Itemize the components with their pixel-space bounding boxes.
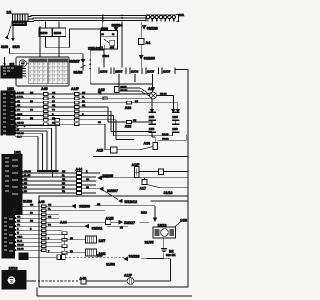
svg-text:SB: SB	[30, 101, 33, 103]
svg-text:11/C7: 11/C7	[163, 70, 171, 74]
svg-text:31/18: 31/18	[164, 191, 173, 195]
svg-text:33/227: 33/227	[69, 59, 80, 63]
heater 16/8	[86, 249, 106, 256]
svg-text:GN: GN	[98, 92, 102, 94]
svg-text:GN: GN	[62, 171, 66, 173]
svg-text:33/227: 33/227	[124, 221, 135, 225]
connector A1/F circle	[124, 274, 171, 285]
svg-text:1/1: 1/1	[7, 11, 12, 15]
svg-text:GN: GN	[30, 204, 34, 206]
wire drop x59 to 11/C8	[58, 22, 60, 58]
svg-text:31/20: 31/20	[23, 200, 32, 204]
wire w2	[15, 98, 152, 112]
lower box border	[39, 196, 188, 287]
svg-text:31/95: 31/95	[145, 240, 154, 244]
wire labels section2	[17, 92, 139, 138]
wire relay left leg	[90, 50, 104, 84]
svg-text:BN-SB: BN-SB	[162, 134, 169, 136]
svg-text:VO: VO	[52, 110, 55, 112]
svg-text:15/18: 15/18	[9, 267, 18, 271]
svg-text:BN: BN	[52, 118, 56, 120]
heater 15/7	[86, 236, 106, 243]
wire w12 down	[15, 134, 43, 171]
svg-text:BN-SB: BN-SB	[160, 94, 167, 96]
svg-text:GR: GR	[52, 105, 56, 107]
wire bulb right	[156, 96, 173, 113]
wire 33/228	[124, 253, 175, 281]
svg-text:328 BK: 328 BK	[166, 253, 175, 257]
svg-text:GN: GN	[133, 120, 137, 122]
svg-text:GN: GN	[82, 92, 86, 94]
wire labels section3	[24, 171, 90, 193]
svg-text:11/C6: 11/C6	[40, 31, 48, 35]
svg-text:13/14:2: 13/14:2	[88, 47, 100, 51]
diagonal into lower box	[104, 191, 119, 200]
wire w7	[15, 120, 134, 140]
svg-text:A44: A44	[60, 220, 67, 224]
arrow 33/227	[69, 59, 85, 63]
svg-text:33/228: 33/228	[129, 255, 140, 259]
arrow 33/204	[112, 24, 123, 31]
arrow 33/205	[139, 55, 154, 60]
svg-text:11/D8: 11/D8	[100, 70, 108, 74]
svg-text:GN: GN	[52, 92, 56, 94]
svg-text:SB: SB	[82, 101, 85, 103]
svg-text:GR-SB: GR-SB	[17, 133, 24, 135]
wire y218	[15, 217, 60, 219]
svg-text:BN: BN	[62, 183, 66, 185]
svg-text:GN-R: GN-R	[17, 236, 23, 238]
svg-text:A46: A46	[38, 200, 45, 204]
svg-text:33/200: 33/200	[79, 205, 90, 209]
svg-text:33/267: 33/267	[107, 189, 118, 193]
wire y234	[15, 233, 63, 235]
label 14/9	[175, 219, 188, 228]
svg-text:A4: A4	[146, 41, 151, 45]
wire y193	[22, 192, 96, 194]
arrow 31/86	[74, 63, 86, 75]
arrow 33/227 right	[119, 221, 135, 226]
arrow 33/200	[72, 204, 90, 208]
wire y222	[15, 221, 150, 223]
wire y250	[15, 250, 86, 252]
connector A33 no1	[125, 101, 132, 110]
svg-text:A37: A37	[148, 87, 155, 91]
wire C8 stub	[134, 74, 136, 82]
right border	[187, 70, 189, 288]
svg-text:A45: A45	[41, 87, 48, 91]
svg-text:31/4: 31/4	[13, 45, 20, 49]
connector A15	[98, 86, 150, 96]
inline connector on w2	[103, 97, 107, 100]
svg-text:SB: SB	[52, 101, 55, 103]
svg-text:15/4: 15/4	[149, 127, 155, 131]
svg-text:16/6: 16/6	[172, 127, 178, 131]
wire w4	[15, 107, 152, 124]
svg-text:1.5 BL: 1.5 BL	[17, 97, 24, 99]
svg-text:30-BR: 30-BR	[121, 87, 128, 89]
connector row 11/D8	[99, 68, 111, 75]
resistor 15/3 pack	[149, 110, 157, 125]
svg-text:VO: VO	[17, 224, 20, 226]
wire relay to row	[104, 22, 122, 68]
connector strip 11A	[146, 15, 179, 22]
wire D8 elbow	[90, 83, 152, 85]
resistor 15/4 pack	[149, 124, 157, 137]
svg-text:VO: VO	[48, 224, 51, 226]
wire y246	[15, 245, 63, 247]
wire A43	[26, 277, 127, 284]
wire bus lines top	[27, 16, 146, 22]
svg-text:BL-R: BL-R	[17, 240, 22, 242]
component 15/18	[2, 253, 28, 289]
relay 3/30	[101, 27, 118, 49]
svg-text:BN: BN	[24, 183, 28, 185]
svg-text:33/204: 33/204	[112, 24, 123, 28]
svg-text:GN: GN	[30, 92, 34, 94]
wire y181	[22, 180, 96, 182]
connector 11/C7 left	[146, 68, 159, 75]
connector 11/D7	[114, 68, 126, 75]
connector A1/E	[105, 217, 114, 225]
pin table	[29, 59, 68, 84]
svg-text:A33: A33	[125, 125, 132, 129]
svg-text:BL-SB: BL-SB	[24, 175, 31, 177]
svg-text:BN: BN	[135, 101, 139, 103]
connector column A45	[41, 87, 48, 126]
wire y173	[22, 172, 100, 174]
wire y214	[15, 213, 60, 215]
svg-text:1.5 GN: 1.5 GN	[17, 92, 24, 94]
arrow A 31/20	[19, 199, 33, 204]
connector column A1/F	[71, 87, 80, 126]
svg-text:GR: GR	[17, 105, 21, 107]
svg-text:SB: SB	[98, 122, 101, 124]
svg-text:11/D7: 11/D7	[115, 70, 123, 74]
control unit box 13/14	[16, 57, 69, 86]
svg-text:31/86: 31/86	[74, 71, 83, 75]
svg-text:BN: BN	[30, 220, 34, 222]
arrow 33/205	[98, 174, 113, 180]
svg-text:VO: VO	[17, 110, 20, 112]
svg-text:2/6:4: 2/6:4	[103, 54, 110, 58]
wire w6	[15, 116, 173, 136]
svg-text:GR: GR	[24, 179, 28, 181]
svg-text:GN-R: GN-R	[17, 114, 23, 116]
svg-text:11/C8: 11/C8	[131, 70, 139, 74]
wire w13 down	[15, 136, 38, 170]
wire y206	[15, 205, 156, 207]
svg-text:VO: VO	[24, 191, 27, 193]
arrow 5/1B/12	[119, 199, 188, 204]
svg-text:5/1B/12: 5/1B/12	[125, 200, 138, 204]
svg-text:VO: VO	[62, 191, 65, 193]
svg-text:SB: SB	[24, 187, 27, 189]
svg-text:GR: GR	[62, 179, 66, 181]
wire drop x45.5 to 11/C6	[45, 22, 47, 48]
wire w3	[15, 103, 178, 112]
label 31/18	[160, 187, 188, 189]
svg-text:33/205: 33/205	[102, 174, 113, 178]
arrow 33/267	[100, 187, 118, 193]
wire y177	[22, 176, 96, 178]
connector A4	[139, 39, 151, 45]
wire w1	[15, 92, 153, 94]
svg-text:15/3: 15/3	[149, 115, 155, 119]
svg-text:GN: GN	[48, 204, 52, 206]
svg-text:BN-SB: BN-SB	[17, 248, 24, 250]
wire from 3/1 to 33/227	[9, 48, 83, 60]
svg-text:SB: SB	[86, 187, 89, 189]
wire y185	[22, 184, 96, 186]
wire jog above box 13/14:2	[39, 26, 41, 57]
svg-text:A33: A33	[125, 106, 132, 110]
wire w5	[15, 111, 152, 132]
connector A17	[140, 178, 161, 191]
svg-text:A15: A15	[97, 149, 104, 153]
svg-text:BN: BN	[30, 118, 34, 120]
junction dots	[103, 15, 122, 22]
connector A33 no2	[125, 121, 132, 129]
svg-text:B/12: B/12	[141, 211, 147, 215]
svg-text:15/3: 15/3	[7, 87, 14, 91]
motor 16/16	[153, 206, 176, 238]
svg-text:SB: SB	[17, 212, 20, 214]
svg-text:SB: SB	[62, 187, 65, 189]
svg-text:A17: A17	[140, 186, 147, 190]
wire C7 to bulb	[152, 74, 154, 92]
wire y210	[15, 209, 106, 211]
svg-text:GR: GR	[17, 216, 21, 218]
ground B2	[141, 238, 174, 258]
component 3/1	[1, 57, 26, 78]
svg-text:33/126: 33/126	[147, 26, 158, 30]
dashed wire top	[28, 255, 124, 260]
svg-text:A1/F: A1/F	[124, 274, 133, 278]
svg-text:GR: GR	[82, 105, 86, 107]
svg-text:VO: VO	[30, 110, 33, 112]
svg-text:BL-Y: BL-Y	[17, 136, 22, 138]
svg-text:GN-SB: GN-SB	[24, 171, 31, 173]
connector 11/C8	[130, 68, 142, 75]
wire y226	[15, 225, 129, 227]
svg-text:11/C8: 11/C8	[54, 31, 62, 35]
svg-text:14/9: 14/9	[180, 219, 187, 223]
svg-text:11A: 11A	[179, 13, 184, 17]
wire y230	[15, 229, 63, 231]
component 1/1 fuse box	[12, 14, 28, 26]
svg-text:OR: OR	[52, 122, 56, 124]
wire 33/126 drop	[140, 22, 142, 39]
ground circle E	[19, 60, 26, 67]
connector column A44	[76, 168, 83, 195]
svg-text:A36: A36	[144, 141, 151, 145]
table digits	[30, 64, 65, 81]
connector A36	[144, 137, 158, 150]
svg-text:A1/F: A1/F	[71, 87, 80, 91]
connector 11/C8	[53, 28, 66, 37]
connector 11/C6	[39, 28, 52, 37]
wire y242	[15, 241, 63, 243]
svg-text:SB: SB	[30, 212, 33, 214]
svg-text:BK-GR: BK-GR	[121, 90, 128, 92]
svg-text:SB: SB	[120, 227, 123, 229]
svg-text:GR-SB: GR-SB	[17, 244, 24, 246]
cable junction T	[37, 170, 59, 172]
arrow 33/201	[85, 225, 103, 231]
section divider	[93, 156, 188, 158]
wire w10 down	[15, 128, 52, 170]
svg-text:W: W	[17, 129, 19, 131]
svg-text:A44: A44	[76, 168, 83, 172]
wire row to right border	[175, 69, 188, 71]
ground arrows 31/3 31/4	[6, 26, 15, 41]
svg-text:GN-SB: GN-SB	[162, 139, 169, 141]
svg-text:33/201: 33/201	[92, 227, 103, 231]
wire y238	[15, 238, 86, 240]
capacitor 16/5	[172, 110, 180, 125]
svg-text:31/98: 31/98	[106, 262, 115, 266]
junction dots x90	[89, 60, 91, 69]
svg-text:GR: GR	[48, 216, 52, 218]
bulb A37	[148, 87, 156, 99]
svg-text:GR: GR	[86, 179, 90, 181]
wire w11 down	[15, 131, 47, 170]
svg-text:GN-SB: GN-SB	[17, 122, 24, 124]
svg-text:GN: GN	[17, 204, 21, 206]
wire y177.8 long	[101, 177, 188, 179]
connector A15 lower	[97, 147, 154, 153]
svg-text:15/7: 15/7	[99, 239, 106, 243]
wire w8	[15, 124, 111, 150]
svg-text:SB: SB	[70, 251, 73, 253]
component 16/1 instrument cluster	[2, 151, 24, 259]
wire y189	[22, 188, 103, 190]
svg-text:SB: SB	[17, 101, 20, 103]
capacitor 16/6	[172, 124, 180, 132]
svg-text:33/205: 33/205	[144, 57, 155, 61]
outer frame bottom	[37, 288, 192, 297]
svg-text:GN: GN	[97, 204, 101, 206]
wire y140 right	[158, 134, 187, 140]
svg-text:16/5: 16/5	[172, 115, 178, 119]
wire labels section4	[17, 204, 123, 253]
svg-text:16/1: 16/1	[14, 151, 21, 155]
svg-text:BN: BN	[17, 118, 21, 120]
connector column A44 lower	[60, 220, 67, 254]
svg-text:W: W	[17, 232, 19, 234]
connector 11/C7B	[162, 68, 175, 75]
wire D7 to A15	[118, 74, 120, 87]
svg-text:31/3: 31/3	[1, 45, 8, 49]
connector A1/F upper	[132, 163, 189, 178]
wire w9 down	[15, 126, 56, 171]
svg-text:11/C7: 11/C7	[147, 70, 155, 74]
connector column A46	[38, 200, 46, 252]
wire 11C6 to relay	[46, 16, 103, 48]
component 15/3 black connector	[1, 87, 16, 135]
svg-text:SB: SB	[70, 238, 73, 240]
svg-text:BN: BN	[17, 220, 21, 222]
